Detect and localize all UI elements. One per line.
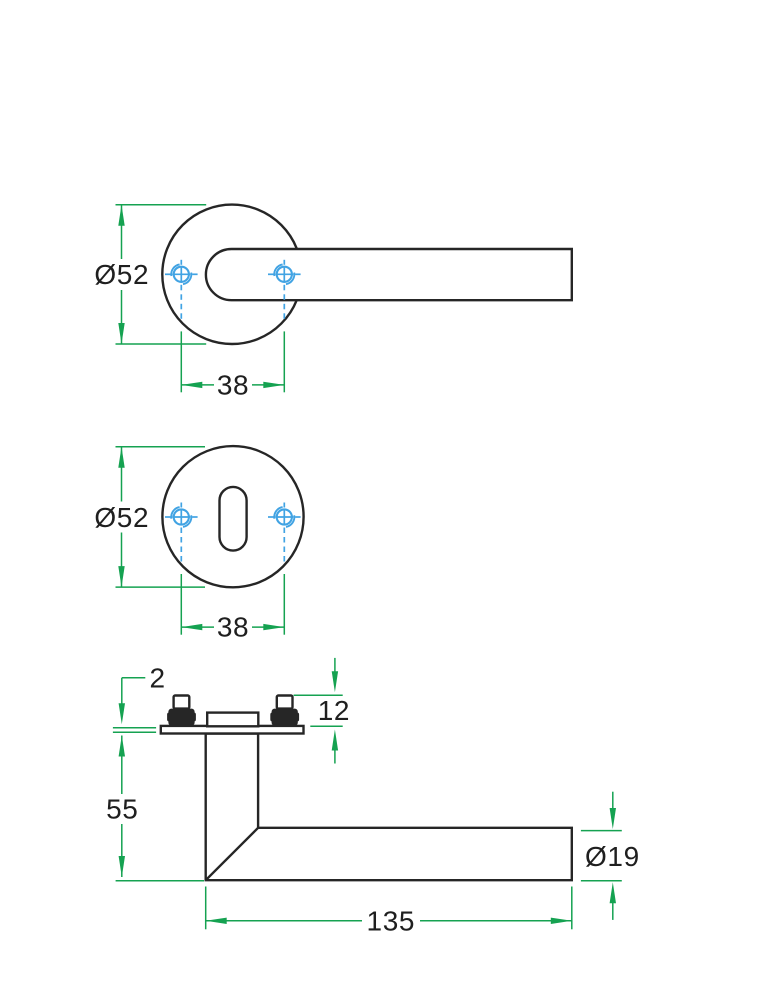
view 1: dimension Ø52 bottom extension line bbox=[116, 343, 207, 345]
view 2: dimension Ø52 top extension line bbox=[116, 446, 206, 448]
view 3: dimension Ø19 top arrow bbox=[610, 792, 616, 829]
view 1: screw position cross left bbox=[165, 260, 198, 319]
view 3: plate thickness extension lines bbox=[113, 728, 156, 733]
view 3: dimension 135 left extension line bbox=[205, 887, 207, 930]
view 2: screw position cross right bbox=[268, 503, 301, 562]
view 1: dimension 38 line with outward arrows bbox=[181, 382, 284, 388]
view 3: dimension 12 top extension line bbox=[294, 694, 343, 696]
view 2: screw position cross left bbox=[165, 503, 198, 562]
view 2: dimension Ø52 vertical line with arrows bbox=[118, 447, 124, 587]
view 3: label 2 bbox=[150, 662, 166, 693]
svg-text:135: 135 bbox=[367, 906, 416, 937]
view 3: right screw head bbox=[277, 696, 293, 709]
view 2: dimension 38 line with outward arrows bbox=[181, 624, 284, 630]
view 2: dimension 38 left extension line bbox=[180, 574, 182, 635]
svg-text:12: 12 bbox=[318, 695, 350, 726]
view 2: escutcheon circle bbox=[162, 446, 303, 587]
view 3: label Ø19 bbox=[585, 841, 640, 872]
view 1: dimension 38 right extension line bbox=[283, 331, 285, 392]
svg-text:55: 55 bbox=[106, 793, 138, 824]
view 3: dimension Ø19 bottom extension line bbox=[581, 880, 622, 882]
view 3: right screw black base bbox=[270, 709, 299, 726]
view 3: dimension 12 bottom extension line bbox=[310, 725, 342, 727]
view 3: dimension 12 bottom arrow bbox=[332, 730, 338, 764]
view 3: dimension Ø19 top extension line bbox=[581, 830, 622, 832]
view 3: dimension 55 line with arrows bbox=[119, 736, 125, 878]
view 1: dimension Ø52 vertical line with arrows bbox=[118, 205, 124, 344]
view 1: round rose circle bbox=[162, 205, 301, 344]
view 1: dimension Ø52 top extension line bbox=[116, 204, 207, 206]
view 3: dimension 55 bottom extension line bbox=[116, 880, 204, 882]
svg-text:2: 2 bbox=[150, 662, 166, 693]
view 3: miter diagonal line bbox=[206, 828, 258, 880]
view 2: dimension Ø52 bottom extension line bbox=[116, 586, 206, 588]
view 3: rose plate (side view) bbox=[161, 726, 304, 734]
view 1: label Ø52 bbox=[94, 259, 149, 290]
view 2: dimension 38 right extension line bbox=[283, 574, 285, 635]
view 1: label 38 bbox=[214, 369, 252, 400]
view 2: keyhole slot bbox=[220, 487, 247, 551]
view 1: lever handle bar (rounded left end) bbox=[206, 249, 572, 300]
view 3: left screw black base bbox=[167, 709, 196, 726]
view 3: dimension 135 right extension line bbox=[571, 887, 573, 930]
view 2: label 38 bbox=[214, 612, 252, 643]
svg-text:Ø52: Ø52 bbox=[94, 502, 149, 533]
view 3: handle stem and bar outline bbox=[206, 734, 572, 881]
view 1: screw position cross right bbox=[268, 260, 301, 319]
view 3: spindle block bbox=[207, 713, 258, 727]
svg-text:38: 38 bbox=[217, 369, 249, 400]
view 2: label Ø52 bbox=[94, 502, 149, 533]
view 3: left screw head bbox=[174, 696, 190, 709]
svg-text:Ø19: Ø19 bbox=[585, 841, 640, 872]
svg-text:38: 38 bbox=[217, 612, 249, 643]
view 3: label 12 bbox=[318, 695, 350, 726]
view 3: label 55 bbox=[103, 793, 142, 824]
view 3: label 135 bbox=[362, 906, 420, 937]
view 3: dimension 12 top arrow bbox=[332, 658, 338, 692]
view 1: dimension 38 left extension line bbox=[180, 331, 182, 392]
view 3: dimension 135 line with outward arrows bbox=[206, 918, 572, 924]
view 3: label 2 leader bbox=[119, 678, 146, 724]
svg-text:Ø52: Ø52 bbox=[94, 259, 149, 290]
view 3: dimension Ø19 bottom arrow bbox=[610, 882, 616, 920]
